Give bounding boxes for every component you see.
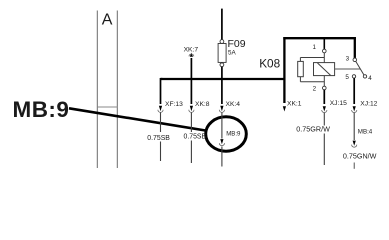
svg-text:1: 1: [313, 44, 317, 51]
wire bus to XF:13: [159, 79, 162, 80]
coil top bracket: [300, 57, 324, 59]
wire supply to fuse: [221, 9, 223, 40]
wire relay pin 1: [323, 38, 325, 49]
relay pin 3 terminal circle: [353, 58, 357, 62]
svg-text:0.75GN/W: 0.75GN/W: [343, 151, 377, 160]
relay coil box: [314, 63, 335, 76]
svg-text:5: 5: [345, 74, 349, 81]
wire XK:4 into ellipse: [221, 113, 223, 139]
svg-text:XJ:15: XJ:15: [330, 100, 347, 107]
fuse F09 body: [218, 44, 226, 63]
coil bottom bracket: [300, 81, 324, 83]
connector XK:4 pin symbol: [219, 106, 224, 113]
connector XF:13 pin symbol: [158, 106, 163, 113]
wire XK:4 below bus: [221, 78, 223, 104]
wire pin5 down: [353, 78, 355, 104]
svg-text:3: 3: [346, 56, 350, 63]
wire XJ:12 lower: [353, 113, 355, 141]
wire XF:13 lower: [160, 113, 162, 133]
mechanical link coil to switch: [335, 68, 361, 70]
wire XJ:15 lower: [323, 113, 325, 126]
svg-text:XJ:12: XJ:12: [360, 100, 377, 107]
harness rung: [97, 106, 117, 108]
svg-text:5A: 5A: [228, 49, 237, 56]
wire XK:4 tail: [221, 147, 223, 167]
svg-text:XK:1: XK:1: [287, 100, 302, 107]
svg-text:XK:8: XK:8: [195, 101, 210, 108]
relay pin 1 terminal circle: [323, 49, 327, 53]
fuse clip circle bottom: [220, 63, 224, 67]
svg-text:XF:13: XF:13: [165, 101, 183, 108]
wire coil to bottom bracket: [323, 76, 325, 87]
connector MB:9 pin symbol: [219, 139, 224, 146]
wire XF:13 tail: [160, 142, 162, 162]
wire XK:8 tail: [190, 141, 192, 164]
wire XJ:15 tail: [323, 134, 325, 166]
svg-text:F09: F09: [228, 38, 246, 50]
callout ellipse: [206, 117, 247, 151]
wire relay pin 3: [354, 37, 356, 58]
resistor stub top: [299, 58, 301, 62]
svg-text:0.75SB: 0.75SB: [184, 134, 207, 141]
wire pin2 down: [323, 90, 325, 104]
fuse clip circle top: [220, 40, 224, 44]
svg-text:K08: K08: [259, 56, 280, 70]
connector XK:1 pin symbol: [283, 106, 286, 111]
harness column line right: [116, 11, 118, 169]
wire XK:8 lower: [190, 113, 192, 133]
svg-text:MB:9: MB:9: [13, 97, 70, 122]
relay feed wire top: [283, 37, 356, 39]
svg-text:MB:4: MB:4: [358, 129, 373, 136]
svg-text:MB:9: MB:9: [226, 130, 241, 137]
svg-text:XK:4: XK:4: [226, 101, 241, 108]
wire pin1 to coil bracket: [323, 53, 325, 63]
bus wire horizontal: [161, 78, 285, 80]
wire XK:7 to bus: [190, 58, 192, 80]
wire XK:8 below bus: [190, 78, 192, 104]
relay pin 4 terminal circle: [363, 75, 366, 78]
relay feed wire left: [283, 37, 285, 103]
connector XJ:15 pin symbol: [322, 106, 327, 112]
svg-text:0.75SB: 0.75SB: [147, 135, 170, 142]
callout pointer line: [69, 108, 206, 130]
harness column line left: [96, 11, 98, 169]
coil diagonal: [318, 63, 331, 75]
wire fuse to bus: [221, 67, 223, 80]
relay pin 5 terminal circle: [352, 75, 355, 78]
svg-text:4: 4: [368, 75, 372, 82]
svg-text:0.75GR/W: 0.75GR/W: [296, 125, 330, 134]
svg-text:XK:7: XK:7: [184, 46, 199, 53]
connector XK:7 pin symbol: [189, 53, 194, 57]
resistor stub bottom: [299, 77, 301, 82]
connector XK:8 pin symbol: [189, 106, 194, 113]
relay coil resistor: [298, 61, 304, 76]
wire XJ:12 tail: [353, 163, 355, 169]
relay pin 2 terminal circle: [323, 86, 327, 90]
connector MB:4 pin symbol: [352, 141, 357, 148]
switch arm: [356, 61, 364, 75]
svg-text:2: 2: [313, 85, 317, 92]
svg-text:A: A: [102, 12, 113, 29]
connector XJ:12 pin symbol: [352, 106, 357, 112]
